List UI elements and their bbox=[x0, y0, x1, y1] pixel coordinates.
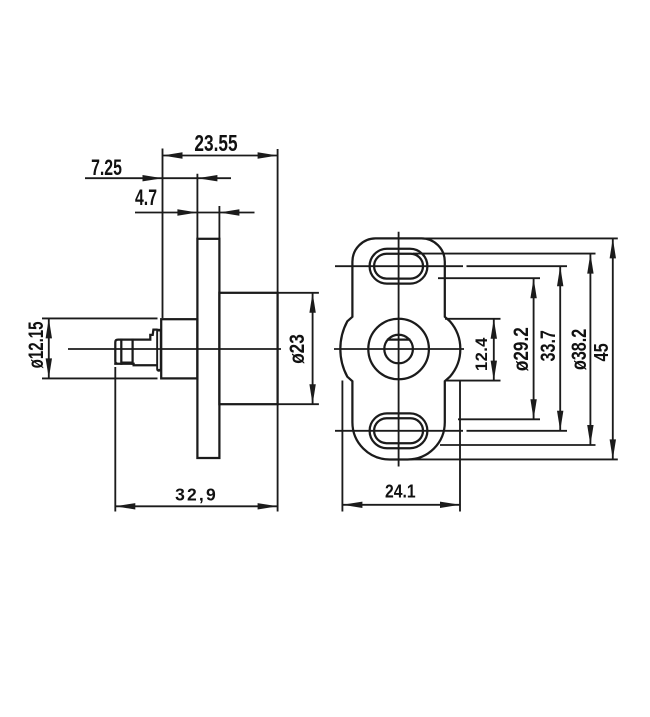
dim 24.1 ext left bbox=[341, 381, 343, 512]
bottom slot inner bbox=[374, 418, 423, 443]
dim 24.1 ext right bbox=[459, 381, 461, 512]
dim 7.25 line bbox=[85, 177, 231, 179]
dim ø29.2 ext bottom bbox=[458, 418, 540, 420]
dim 45 ext bottom bbox=[408, 458, 618, 460]
dim ø29.2 line bbox=[533, 278, 535, 419]
dim ø23 ext bottom bbox=[278, 403, 319, 405]
svg-text:ø29.2: ø29.2 bbox=[509, 327, 533, 371]
dim ø23 ext top bbox=[278, 292, 319, 294]
dim 23.55 ext left bbox=[162, 149, 164, 319]
arrow ø23 bottom bbox=[309, 384, 315, 404]
arrow ø38.2 bottom bbox=[587, 425, 593, 445]
flange outline (front view) bbox=[340, 238, 460, 459]
svg-text:23.55: 23.55 bbox=[194, 132, 237, 157]
arrow 23.55 right bbox=[258, 152, 278, 158]
arrow 4.7 left (outside) bbox=[177, 209, 197, 215]
dim ø29.2 ext top bbox=[438, 277, 540, 279]
arrow 24.1 left bbox=[342, 502, 362, 508]
hole chord flat bbox=[388, 338, 409, 340]
svg-text:4.7: 4.7 bbox=[135, 187, 157, 211]
dim 32.9 ext right bbox=[277, 404, 279, 511]
arrow 7.25 right (outside) bbox=[197, 175, 217, 181]
arrow 23.55 left bbox=[163, 152, 183, 158]
arrow ø38.2 top bbox=[587, 254, 593, 274]
center hole circle bbox=[384, 335, 413, 364]
svg-text:ø12.15: ø12.15 bbox=[23, 321, 47, 368]
top slot inner bbox=[374, 254, 423, 279]
dim 7.25 ext right (flange left edge above) bbox=[196, 174, 198, 239]
vertical centerline front view bbox=[398, 232, 400, 467]
pin tick 2 bbox=[131, 340, 133, 364]
dim 23.55 line bbox=[163, 155, 278, 157]
insulator bead bbox=[156, 329, 161, 372]
arrow 45 top bbox=[610, 238, 616, 258]
bottom slot centerline bbox=[335, 430, 463, 432]
dim ø38.2 ext top bbox=[413, 253, 596, 255]
pin tick 1 bbox=[120, 340, 122, 364]
dim 33.7 ext bottom bbox=[467, 430, 568, 432]
horizontal centerline front view bbox=[334, 348, 464, 350]
dim 32.9 line bbox=[115, 505, 277, 507]
dim 24.1 line bbox=[342, 504, 460, 506]
arrow 33.7 bottom bbox=[557, 411, 563, 431]
dim ø12.15 ext bottom bbox=[42, 377, 158, 379]
pin slot mark bbox=[122, 361, 133, 363]
svg-text:45: 45 bbox=[589, 343, 612, 361]
arrow 12.4 bottom bbox=[491, 361, 497, 381]
arrow 32.9 left bbox=[115, 503, 135, 509]
arrow 45 bottom bbox=[610, 439, 616, 459]
center boss circle bbox=[368, 319, 429, 380]
svg-text:ø38.2: ø38.2 bbox=[568, 329, 592, 370]
dim 45 line bbox=[612, 238, 614, 459]
top slot centerline bbox=[335, 265, 463, 267]
dim ø12.15 ext top bbox=[42, 317, 158, 319]
bottom slot outer bbox=[370, 413, 428, 448]
boss ø12.15 (side view) bbox=[161, 319, 197, 378]
dim ø23 line bbox=[312, 293, 314, 404]
dim 4.7 ext right bbox=[218, 206, 220, 239]
dim ø12.15 line bbox=[48, 318, 50, 378]
centerline left view bbox=[68, 348, 281, 350]
dim 33.7 line bbox=[559, 266, 561, 431]
dim 12.4 ext bottom bbox=[445, 380, 501, 382]
arrow ø12.15 top bbox=[46, 318, 52, 338]
dim 33.7 ext top bbox=[467, 265, 568, 267]
dim 4.7 line bbox=[135, 212, 255, 214]
flange plate (side view) bbox=[197, 239, 219, 458]
svg-text:12.4: 12.4 bbox=[473, 337, 491, 371]
dim ø38.2 line bbox=[589, 254, 591, 445]
arrow 33.7 top bbox=[557, 266, 563, 286]
arrow 12.4 top bbox=[491, 319, 497, 339]
arrow ø29.2 bottom bbox=[530, 399, 536, 419]
dim 12.4 ext top bbox=[445, 318, 501, 320]
dim 45 ext top bbox=[422, 237, 618, 239]
arrow 32.9 right bbox=[258, 503, 278, 509]
dim 32.9 ext left bbox=[114, 367, 116, 512]
pin contact outline bbox=[115, 330, 156, 366]
svg-text:32,9: 32,9 bbox=[175, 485, 218, 505]
dim 23.55 ext right bbox=[277, 149, 279, 293]
dim ø38.2 ext bottom bbox=[440, 444, 596, 446]
arrow 4.7 right (outside) bbox=[219, 209, 239, 215]
body cylinder (side view) bbox=[219, 293, 277, 404]
dim 12.4 line bbox=[493, 319, 495, 381]
svg-text:ø23: ø23 bbox=[285, 334, 309, 364]
arrow ø12.15 bottom bbox=[46, 358, 52, 378]
svg-text:24.1: 24.1 bbox=[385, 480, 416, 502]
arrow 7.25 left (outside) bbox=[143, 175, 163, 181]
top slot outer bbox=[370, 249, 428, 284]
arrow ø29.2 top bbox=[530, 278, 536, 298]
arrow ø23 top bbox=[309, 293, 315, 313]
svg-text:7.25: 7.25 bbox=[91, 157, 122, 181]
svg-text:33.7: 33.7 bbox=[537, 330, 561, 361]
arrow 24.1 right bbox=[440, 502, 460, 508]
